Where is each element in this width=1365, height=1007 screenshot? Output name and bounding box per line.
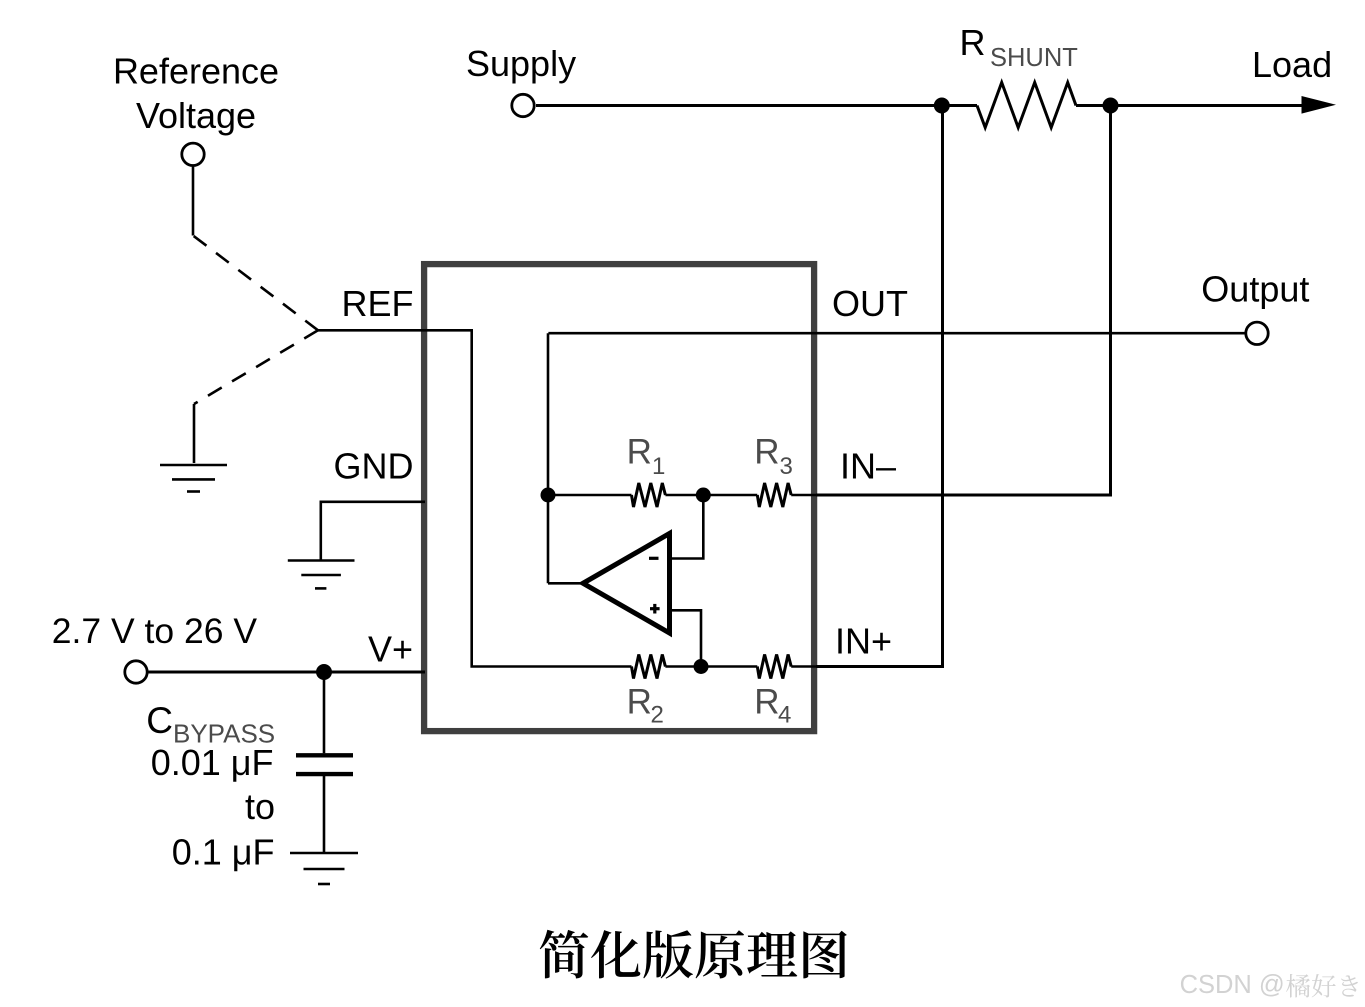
svg-text:SHUNT: SHUNT [990, 44, 1078, 72]
svg-text:1: 1 [652, 453, 665, 480]
svg-text:R: R [627, 433, 652, 472]
svg-text:Load: Load [1252, 44, 1332, 85]
svg-text:R: R [754, 682, 779, 721]
svg-text:3: 3 [780, 453, 793, 480]
svg-text:IN–: IN– [840, 446, 896, 487]
svg-text:Reference: Reference [113, 51, 279, 92]
svg-text:to: to [245, 786, 275, 827]
svg-text:GND: GND [334, 445, 414, 486]
svg-text:0.1 μF: 0.1 μF [172, 832, 275, 873]
svg-text:REF: REF [342, 283, 414, 324]
svg-text:V+: V+ [368, 629, 413, 670]
svg-text:IN+: IN+ [835, 620, 892, 661]
svg-text:R: R [627, 682, 652, 721]
svg-text:R: R [754, 433, 779, 472]
svg-text:Output: Output [1201, 269, 1309, 310]
svg-text:2.7 V to 26 V: 2.7 V to 26 V [52, 611, 258, 651]
svg-text:R: R [960, 22, 986, 63]
svg-text:CSDN @: CSDN @ [1180, 971, 1285, 999]
svg-text:Voltage: Voltage [136, 95, 256, 136]
svg-text:2: 2 [651, 702, 664, 729]
svg-text:OUT: OUT [832, 283, 908, 324]
svg-text:4: 4 [778, 702, 791, 729]
svg-text:0.01 μF: 0.01 μF [151, 742, 274, 783]
svg-text:Supply: Supply [466, 43, 576, 84]
svg-text:C: C [146, 700, 173, 741]
